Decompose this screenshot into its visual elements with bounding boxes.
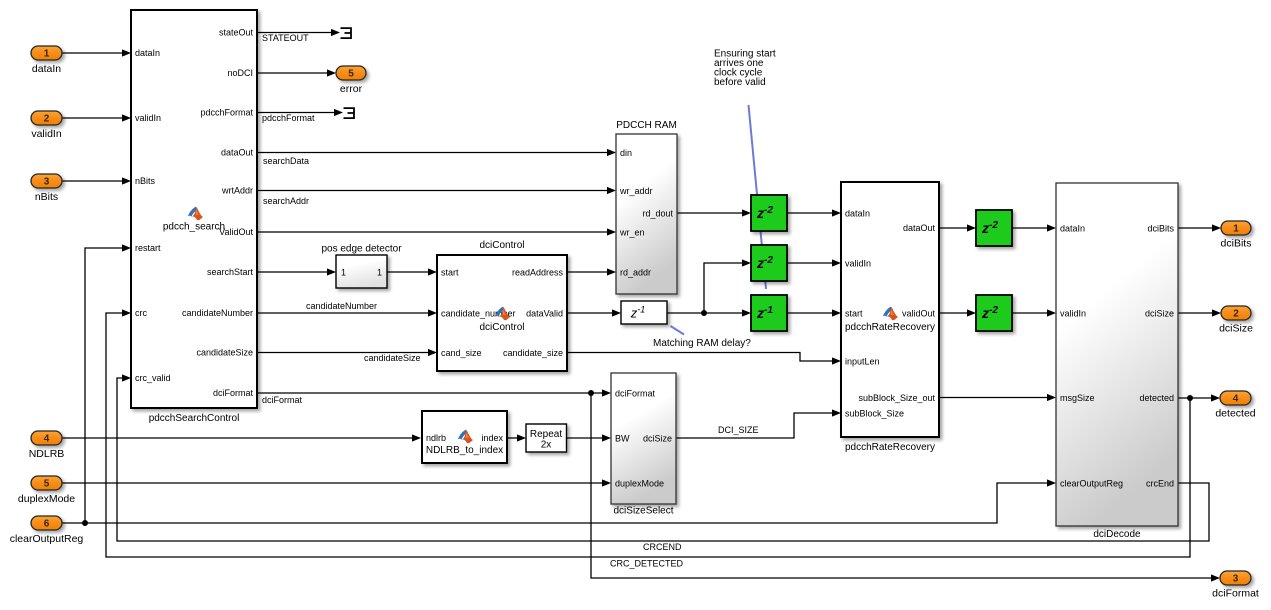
- wire pos edge detector to dciControl start: [387, 271, 434, 273]
- inport 4 NDLRB: [29, 431, 65, 460]
- wire candidateNumber to dciControl candidate_number: [257, 312, 434, 314]
- svg-text:cand_size: cand_size: [441, 348, 482, 358]
- junction clearOutputReg/restart: [82, 520, 88, 526]
- inport 2 validIn: [31, 111, 62, 140]
- svg-text:validIn: validIn: [31, 128, 62, 140]
- matlab icon pdcch_search: [188, 207, 203, 221]
- svg-text:6: 6: [44, 519, 50, 530]
- svg-text:wr_addr: wr_addr: [619, 186, 653, 196]
- svg-text:5: 5: [44, 479, 50, 490]
- svg-text:4: 4: [44, 434, 50, 445]
- wire green Z-2c to dciDecode dataIn: [1012, 227, 1053, 229]
- svg-text:searchStart: searchStart: [207, 267, 254, 277]
- svg-text:2: 2: [44, 114, 50, 125]
- block pdcchRateRecovery: [841, 182, 939, 453]
- delay green Z-2 (dataOut): [976, 210, 1012, 246]
- svg-text:wrtAddr: wrtAddr: [221, 186, 253, 196]
- svg-text:searchData: searchData: [263, 156, 309, 166]
- svg-text:ndlrb: ndlrb: [426, 433, 446, 443]
- block dciSizeSelect: [611, 373, 676, 517]
- junction Z-1 output branch: [701, 310, 707, 316]
- svg-text:dciSizeSelect: dciSizeSelect: [613, 506, 673, 517]
- delay green Z-1 (start): [751, 295, 787, 331]
- junction dciFormat branch: [588, 390, 594, 396]
- wire dciFormat to dciSizeSelect: [257, 392, 608, 394]
- svg-text:validIn: validIn: [845, 259, 871, 269]
- svg-text:validOut: validOut: [902, 309, 936, 319]
- arrow dciDecode msgSize: [1047, 394, 1056, 401]
- arrow dciSizeSelect dciFormat: [602, 389, 611, 396]
- inport 3 nBits: [31, 174, 62, 203]
- arrow pdcchRateRecovery inputLen: [832, 357, 841, 364]
- svg-text:DCI_SIZE: DCI_SIZE: [718, 425, 759, 435]
- svg-text:BW: BW: [615, 434, 630, 444]
- arrow pos edge detector in: [327, 268, 336, 275]
- wire RAM rd_dout to green Z-2: [677, 212, 748, 214]
- svg-text:detected: detected: [1215, 408, 1255, 420]
- wire searchData dataOut to RAM din: [257, 152, 613, 154]
- block PDCCH RAM: [616, 120, 677, 294]
- wire dataIn port1 to pdcchSearchControl: [62, 52, 128, 54]
- svg-text:clearOutputReg: clearOutputReg: [10, 533, 84, 545]
- wire green Z-2d to dciDecode validIn: [1012, 312, 1053, 314]
- svg-text:dataOut: dataOut: [221, 148, 254, 158]
- svg-text:start: start: [845, 309, 863, 319]
- delay Z-1 white: [621, 301, 667, 324]
- arrow NDLRB_to_index ndlrb: [412, 434, 421, 441]
- svg-text:subBlock_Size: subBlock_Size: [845, 409, 904, 419]
- arrow outport dciFormat: [1211, 574, 1220, 581]
- svg-text:1: 1: [341, 268, 346, 278]
- svg-text:dciFormat: dciFormat: [213, 388, 254, 398]
- arrow RAM din: [607, 149, 616, 156]
- svg-text:detected: detected: [1139, 393, 1174, 403]
- svg-text:din: din: [620, 148, 632, 158]
- svg-text:dciSize: dciSize: [1145, 309, 1174, 319]
- arrow dciDecode validIn: [1047, 309, 1056, 316]
- terminator pdcchFormat: [344, 107, 355, 119]
- svg-text:Matching RAM delay?: Matching RAM delay?: [653, 338, 751, 349]
- wire validOut to green Z-2d: [939, 312, 973, 314]
- svg-text:validIn: validIn: [1060, 309, 1086, 319]
- svg-text:nBits: nBits: [35, 191, 58, 203]
- wire ValidOut to RAM wr_en: [257, 231, 613, 233]
- svg-text:candidateNumber: candidateNumber: [306, 301, 377, 311]
- svg-text:duplexMode: duplexMode: [18, 493, 75, 505]
- svg-text:readAddress: readAddress: [512, 268, 564, 278]
- svg-text:rd_addr: rd_addr: [620, 268, 651, 278]
- svg-text:5: 5: [348, 69, 354, 80]
- svg-text:dciBits: dciBits: [1221, 238, 1252, 250]
- svg-text:4: 4: [1233, 394, 1239, 405]
- svg-text:noDCI: noDCI: [227, 68, 253, 78]
- arrow dciControl candidate_number: [428, 309, 437, 316]
- arrow nBits: [122, 177, 131, 184]
- svg-text:dciControl: dciControl: [479, 322, 524, 333]
- arrow dciControl cand_size: [428, 349, 437, 356]
- svg-text:dciDecode: dciDecode: [1093, 529, 1141, 540]
- block pos edge detector: [321, 244, 402, 289]
- svg-text:CRCEND: CRCEND: [643, 542, 682, 552]
- svg-text:validIn: validIn: [135, 113, 161, 123]
- wire green Z-2 to pdcchRateRecovery dataIn: [787, 212, 838, 214]
- svg-text:Repeat: Repeat: [530, 429, 562, 440]
- wire noDCI to error outport: [257, 72, 333, 74]
- outport 1 dciBits: [1221, 221, 1252, 250]
- svg-text:dciFormat: dciFormat: [615, 389, 656, 399]
- outport 4 detected: [1215, 391, 1255, 420]
- arrow delay Z-1 in: [612, 309, 621, 316]
- block pdcchSearchControl: [131, 10, 257, 424]
- arrow dciSizeSelect BW: [602, 434, 611, 441]
- arrow crc: [122, 309, 131, 316]
- arrow pdcchRateRecovery start: [832, 309, 841, 316]
- svg-text:dciSize: dciSize: [643, 434, 672, 444]
- matlab icon NDLRB_to_index: [458, 430, 473, 444]
- annotation blue callout line 2: [671, 326, 685, 335]
- wire NDLRB port4 to NDLRB_to_index: [62, 437, 418, 439]
- svg-text:candidateNumber: candidateNumber: [182, 308, 253, 318]
- svg-text:pdcchRateRecovery: pdcchRateRecovery: [845, 322, 935, 333]
- outport 3 dciFormat: [1212, 571, 1259, 600]
- wire clearOutputReg port6 to dciDecode: [62, 483, 1053, 523]
- svg-text:pos edge detector: pos edge detector: [321, 244, 402, 255]
- wire NDLRB_to_index to Repeat: [507, 437, 523, 439]
- wire candidate_size to pdcchRateRecovery inputLen: [567, 353, 838, 362]
- svg-text:nBits: nBits: [135, 176, 156, 186]
- svg-text:error: error: [340, 83, 363, 95]
- terminator STATEOUT: [341, 27, 352, 39]
- wire dataOut to green Z-2c: [939, 227, 973, 229]
- arrow dciDecode clearOutputReg: [1047, 479, 1056, 486]
- svg-text:dciSize: dciSize: [1219, 323, 1253, 335]
- arrow restart: [122, 244, 131, 251]
- block Repeat 2x: [526, 424, 567, 452]
- arrow pdcchFormat terminator: [334, 109, 343, 116]
- svg-text:clearOutputReg: clearOutputReg: [1060, 479, 1123, 489]
- wire Repeat to dciSizeSelect BW: [567, 437, 609, 439]
- svg-text:dataIn: dataIn: [135, 48, 160, 58]
- wire validIn port2 to pdcchSearchControl: [62, 117, 128, 119]
- svg-text:dciControl: dciControl: [479, 240, 524, 251]
- arrow error: [327, 69, 336, 76]
- wire subBlock_Size_out to dciDecode msgSize: [939, 397, 1053, 399]
- wire restart branch from clearOutputReg: [85, 248, 128, 523]
- svg-text:start: start: [441, 268, 459, 278]
- wire searchStart to pos edge detector: [257, 271, 333, 273]
- block dciControl: [437, 240, 567, 371]
- arrow pdcchRateRecovery subBlock_Size: [832, 409, 841, 416]
- wire green Z-2b to pdcchRateRecovery validIn: [787, 262, 838, 264]
- svg-text:duplexMode: duplexMode: [615, 479, 664, 489]
- svg-text:2: 2: [1233, 309, 1239, 320]
- svg-text:1: 1: [44, 49, 50, 60]
- arrow pdcchRateRecovery validIn: [832, 259, 841, 266]
- wire duplexMode port5 to dciSizeSelect: [62, 482, 608, 484]
- svg-text:msgSize: msgSize: [1060, 393, 1095, 403]
- wire detected to outport 4: [1178, 397, 1217, 399]
- arrow RAM wr_en: [607, 228, 616, 235]
- inport 6 clearOutputReg: [10, 516, 84, 545]
- arrow green Z-2d in: [967, 309, 976, 316]
- wire nBits port3 to pdcchSearchControl: [62, 180, 128, 182]
- wire Z-1 out to green Z-1 with branch: [667, 263, 748, 313]
- wire stateOut to terminator: [257, 32, 337, 34]
- svg-text:1: 1: [377, 268, 382, 278]
- junction detected branch: [1187, 395, 1193, 401]
- svg-text:pdcchFormat: pdcchFormat: [200, 108, 253, 118]
- inport 1 dataIn: [31, 46, 62, 75]
- svg-text:searchAddr: searchAddr: [263, 196, 309, 206]
- arrow dciControl start: [428, 268, 437, 275]
- outport 5 error: [336, 66, 366, 95]
- outport 2 dciSize: [1219, 306, 1253, 335]
- matlab icon dciControl: [495, 307, 510, 321]
- svg-text:stateOut: stateOut: [219, 28, 254, 38]
- arrow outport detected: [1211, 394, 1220, 401]
- svg-text:1: 1: [1233, 224, 1239, 235]
- arrow green Z-2 in: [742, 209, 751, 216]
- arrow dataIn: [122, 49, 131, 56]
- wire pdcchFormat to terminator: [257, 112, 340, 114]
- svg-text:crc_valid: crc_valid: [135, 373, 171, 383]
- svg-text:dciBits: dciBits: [1147, 224, 1174, 234]
- svg-text:2x: 2x: [541, 440, 552, 451]
- svg-text:pdcch_search: pdcch_search: [163, 222, 225, 233]
- wire DCI_SIZE dciSize to subBlock_Size: [676, 413, 838, 438]
- svg-text:wr_en: wr_en: [619, 228, 645, 238]
- svg-text:pdcchFormat: pdcchFormat: [262, 113, 315, 123]
- delay green Z-2 (data): [751, 195, 787, 231]
- svg-text:dciFormat: dciFormat: [1212, 588, 1259, 600]
- svg-text:dataIn: dataIn: [1060, 224, 1085, 234]
- arrow green Z-2c in: [967, 224, 976, 231]
- inport 5 duplexMode: [18, 476, 75, 505]
- svg-text:index: index: [481, 433, 503, 443]
- arrow RAM rd_addr: [607, 268, 616, 275]
- svg-text:candidateSize: candidateSize: [364, 353, 421, 363]
- wire CRC_DETECTED feedback detected to crc: [106, 313, 1190, 557]
- delay green Z-2 (valid): [751, 245, 787, 281]
- svg-text:dataValid: dataValid: [526, 309, 563, 319]
- svg-text:candidateSize: candidateSize: [196, 348, 253, 358]
- arrow validIn: [122, 114, 131, 121]
- arrow pdcchRateRecovery dataIn: [832, 209, 841, 216]
- svg-text:restart: restart: [135, 243, 161, 253]
- svg-text:crcEnd: crcEnd: [1146, 479, 1174, 489]
- wire dciSize to outport 2: [1178, 312, 1218, 314]
- arrow stateOut terminator: [331, 29, 340, 36]
- svg-text:dataOut: dataOut: [903, 223, 936, 233]
- arrow RAM wr_addr: [607, 187, 616, 194]
- svg-text:rd_dout: rd_dout: [642, 209, 673, 219]
- wire dataValid to delay Z-1: [567, 312, 618, 314]
- matlab icon pdcchRateRecovery: [883, 307, 898, 321]
- ARROWHEADS: [122, 29, 1221, 582]
- delay green Z-2 (validOut): [976, 295, 1012, 331]
- wire CRCEND feedback crcEnd to crc_valid: [117, 378, 1209, 541]
- arrow dciSizeSelect duplexMode: [602, 479, 611, 486]
- svg-text:subBlock_Size_out: subBlock_Size_out: [858, 393, 935, 403]
- wire readAddress to RAM rd_addr: [567, 271, 613, 273]
- wire dciBits to outport 1: [1178, 227, 1218, 229]
- svg-text:pdcchSearchControl: pdcchSearchControl: [149, 413, 240, 424]
- wire dciFormat branch to outport 3: [591, 393, 1217, 578]
- svg-text:NDLRB: NDLRB: [29, 448, 65, 460]
- arrow outport dciSize: [1212, 309, 1221, 316]
- block dciDecode: [1056, 183, 1178, 540]
- svg-text:PDCCH RAM: PDCCH RAM: [616, 120, 677, 131]
- svg-text:inputLen: inputLen: [845, 357, 880, 367]
- svg-text:dciFormat: dciFormat: [262, 395, 303, 405]
- svg-text:3: 3: [44, 177, 50, 188]
- arrow dciDecode dataIn: [1047, 224, 1056, 231]
- svg-text:3: 3: [1233, 574, 1239, 585]
- block NDLRB_to_index: [422, 411, 507, 463]
- arrow outport dciBits: [1212, 224, 1221, 231]
- svg-text:candidate_size: candidate_size: [503, 348, 563, 358]
- wire green Z-1 to pdcchRateRecovery start: [787, 312, 838, 314]
- svg-text:NDLRB_to_index: NDLRB_to_index: [426, 445, 503, 456]
- svg-text:dataIn: dataIn: [32, 63, 61, 75]
- wire candidateSize to dciControl cand_size: [257, 352, 434, 354]
- annotation blue callout line 1: [749, 105, 767, 289]
- wire searchAddr wrtAddr to RAM wr_addr: [257, 190, 613, 192]
- svg-text:dataIn: dataIn: [845, 209, 870, 219]
- svg-text:pdcchRateRecovery: pdcchRateRecovery: [845, 442, 935, 453]
- arrow crc_valid: [122, 374, 131, 381]
- svg-text:CRC_DETECTED: CRC_DETECTED: [610, 559, 684, 569]
- arrow green Z-2b in: [742, 259, 751, 266]
- arrow green Z-1 in: [742, 309, 751, 316]
- arrow Repeat in: [517, 434, 526, 441]
- svg-text:crc: crc: [135, 308, 147, 318]
- svg-text:STATEOUT: STATEOUT: [262, 33, 309, 43]
